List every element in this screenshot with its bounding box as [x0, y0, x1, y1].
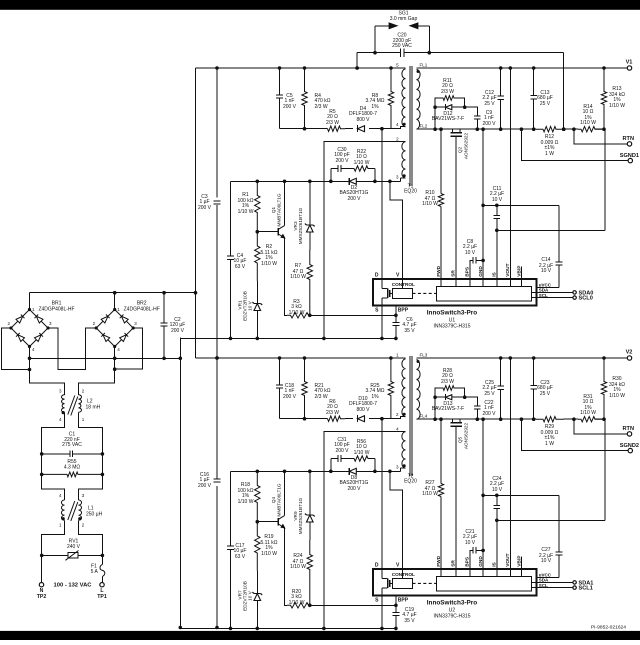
capacitor C8 2.2uF 10V BPS — [463, 239, 483, 279]
diode D10 DFLF1800-7 800V — [345, 396, 382, 422]
svg-text:10 V: 10 V — [465, 540, 476, 546]
wire bias clamp line — [231, 470, 401, 474]
diode D2 BAS20HT1G 200V — [340, 178, 369, 202]
pin label VB/P — [517, 555, 523, 567]
svg-text:200 V: 200 V — [482, 411, 496, 417]
resistor R2 5.11kohm 1% 1/10W — [255, 230, 278, 281]
spark gap SG1 3.0mm — [375, 11, 429, 29]
transformer T2 primary winding upper (pins 1,2) — [396, 353, 406, 418]
svg-text:D: D — [375, 563, 379, 569]
wire V pin to bias line — [388, 180, 403, 279]
resistor R25 3.74Mohm 1% — [365, 358, 393, 419]
IC U2 InnoSwitch3-Pro INN3379C-H315 — [373, 569, 552, 596]
resistor R56 10ohm 1/10W — [352, 439, 375, 472]
wire SCL to terminal SCL1 — [537, 586, 593, 592]
svg-text:GND: GND — [478, 266, 484, 277]
svg-text:200 V: 200 V — [482, 121, 496, 127]
capacitor C24 2.2uF 10V — [490, 476, 504, 569]
pin label VOUT — [505, 553, 511, 566]
svg-text:2/3 W: 2/3 W — [441, 89, 454, 95]
svg-text:5 A: 5 A — [91, 569, 99, 575]
capacitor C20 2200pF 250VAC — [357, 26, 564, 57]
pin label VB/P — [517, 265, 523, 277]
svg-text:1/10 W: 1/10 W — [609, 103, 625, 109]
svg-text:SR: SR — [451, 560, 457, 567]
svg-text:VOUT: VOUT — [505, 553, 511, 566]
wire section return rail — [180, 627, 397, 631]
wire to primary pin — [380, 127, 404, 131]
transformer T1 secondary winding FL1/FL2 — [417, 62, 428, 129]
wire SCL to terminal SCL0 — [537, 296, 593, 302]
label 100-132 VAC — [54, 582, 93, 588]
resistor R1 100kohm 1% 1/10W — [238, 181, 260, 231]
svg-text:1/10 W: 1/10 W — [290, 564, 306, 570]
IC name labels U2 — [427, 600, 478, 620]
pin label FWD — [436, 555, 442, 566]
resistor R10 47ohm 1/10W — [422, 190, 444, 207]
capacitor C14 2.2uF 10V uVCC — [539, 257, 553, 274]
transformer T1 EQ20 core — [404, 66, 417, 195]
svg-text:800 V: 800 V — [356, 407, 370, 413]
svg-text:2/3 W: 2/3 W — [315, 394, 328, 400]
fuse F1 5A — [91, 555, 105, 582]
wire primary return line — [30, 357, 183, 361]
svg-text:BPP: BPP — [398, 308, 409, 314]
wire BR1 pin4 down — [28, 347, 32, 372]
svg-text:Q5: Q5 — [458, 436, 463, 443]
pin label D — [375, 273, 379, 279]
pin label GND — [478, 556, 484, 567]
svg-text:1/10 W: 1/10 W — [290, 274, 306, 280]
resistor R28 20ohm 2/3W snubber — [435, 368, 465, 397]
svg-text:VB/P: VB/P — [517, 555, 523, 567]
wire BR1 pin2 loop — [2, 328, 30, 370]
capacitor C22 1nF 200V — [465, 397, 496, 419]
svg-text:10 V: 10 V — [541, 558, 552, 564]
svg-text:2/3 W: 2/3 W — [441, 379, 454, 385]
capacitor C25 2.2uF 25V — [482, 358, 504, 419]
svg-text:200 V: 200 V — [335, 448, 349, 454]
transistor Q1 MMBTA06LT1G — [257, 181, 285, 238]
wire FWD sense — [440, 419, 442, 569]
svg-text:BPS: BPS — [465, 266, 471, 277]
svg-text:MMSZ5261BT1G: MMSZ5261BT1G — [298, 207, 303, 244]
wire secondary return line FL2 — [417, 127, 537, 131]
wire primary lower winding to left vertical — [322, 141, 401, 340]
svg-text:InnoSwitch3-Pro: InnoSwitch3-Pro — [427, 310, 478, 317]
pin label BPS — [465, 266, 471, 277]
wire R13 bottom — [595, 417, 606, 421]
terminal TP2 N input — [37, 583, 47, 600]
svg-text:35 V: 35 V — [404, 618, 415, 624]
wire S pin to rail — [381, 596, 383, 629]
transformer T2 EQ20 core — [404, 356, 417, 485]
resistor R4 470kohm 2/3W — [302, 68, 331, 129]
wire uVCC supply line — [483, 495, 562, 577]
svg-text:1 W: 1 W — [545, 151, 554, 157]
common mode choke L2 18mH — [59, 388, 101, 422]
wire X-cap block to L1 pins 4,3 — [42, 474, 103, 500]
shunt resistor R12 0.009ohm 1W — [536, 127, 564, 157]
svg-text:CONTROL: CONTROL — [392, 572, 415, 577]
pin label SR — [451, 270, 457, 277]
capacitor C16 1uF 200V — [198, 472, 220, 489]
svg-text:275 VAC: 275 VAC — [62, 442, 82, 448]
wire VB/P pin stub — [521, 557, 523, 569]
svg-text:AONS62922: AONS62922 — [463, 132, 468, 159]
svg-text:INN3379C-H315: INN3379C-H315 — [434, 324, 471, 330]
svg-text:200 V: 200 V — [347, 196, 361, 202]
svg-text:1/10 W: 1/10 W — [422, 491, 438, 497]
svg-text:4.3 MΩ: 4.3 MΩ — [64, 465, 81, 471]
wire VB/P pin stub — [521, 267, 523, 279]
svg-text:10 V: 10 V — [248, 590, 253, 601]
wire L1 pin1 to RV1 line — [42, 520, 65, 555]
wire S pin to rail — [381, 306, 383, 339]
svg-text:MMBTA06LT1G: MMBTA06LT1G — [276, 483, 281, 517]
resistor R30 324kohm 1% 1/10W — [601, 358, 625, 419]
wire secondary output bus — [417, 66, 628, 70]
terminal V1 — [626, 60, 633, 71]
svg-text:200 V: 200 V — [347, 486, 361, 492]
resistor R24 47ohm 1/10W — [290, 540, 312, 607]
svg-text:FL4: FL4 — [420, 414, 428, 419]
wire section return rail — [180, 337, 397, 341]
terminal RTN — [574, 419, 634, 436]
svg-text:10 V: 10 V — [492, 487, 503, 493]
svg-text:MMSZ5261BT1G: MMSZ5261BT1G — [298, 497, 303, 534]
svg-text:D: D — [375, 273, 379, 279]
svg-text:SR: SR — [451, 270, 457, 277]
pin label BPP — [398, 598, 409, 604]
resistor R11 20ohm 2/3W snubber — [435, 78, 465, 107]
wire HV- vertical C3/C16 rail — [215, 68, 219, 629]
wire BR2 pin4 down to L2 pin 2 — [79, 347, 117, 395]
svg-text:200 V: 200 V — [335, 158, 349, 164]
svg-text:1%: 1% — [371, 394, 379, 400]
wire D pin to primary — [381, 419, 383, 569]
resistor R20 3kohm 1/10W — [287, 589, 310, 608]
svg-text:TP2: TP2 — [37, 594, 47, 600]
capacitor C2 120uF 200V — [161, 293, 186, 359]
svg-text:FWD: FWD — [436, 555, 442, 566]
wire BR1 pin3 loop — [48, 328, 96, 370]
capacitor C4 10uF 63V — [227, 181, 246, 338]
svg-text:200 V: 200 V — [171, 328, 185, 334]
resistor R21 470kohm 2/3W — [302, 358, 331, 419]
svg-text:BPS: BPS — [465, 556, 471, 567]
capacitor C11 2.2uF 10V — [490, 186, 504, 279]
capacitor C3 1uF 200V — [198, 194, 220, 211]
svg-text:100 - 132 VAC: 100 - 132 VAC — [54, 582, 93, 588]
resistor R7 47ohm 1/10W — [290, 250, 312, 317]
terminal TP1 L input — [97, 583, 107, 600]
pin label V — [396, 273, 400, 279]
SR FET Q5 AONS62922 — [450, 419, 468, 569]
svg-text:SCL0: SCL0 — [579, 296, 593, 302]
svg-text:uVCC: uVCC — [539, 282, 552, 287]
svg-text:MMBTA06LT1G: MMBTA06LT1G — [276, 193, 281, 227]
svg-text:35 V: 35 V — [404, 328, 415, 334]
svg-text:BAV21WS-7-F: BAV21WS-7-F — [432, 116, 464, 122]
wire snubber output line — [280, 417, 328, 421]
diode D8 BAS20HT1G 200V — [340, 468, 369, 492]
capacitor C13 680uF 25V — [530, 68, 553, 129]
svg-text:10 V: 10 V — [465, 250, 476, 256]
wire C20 right leg to RTN rail — [562, 53, 566, 131]
svg-text:200 V: 200 V — [283, 104, 297, 110]
svg-text:V1: V1 — [626, 60, 633, 66]
svg-text:25 V: 25 V — [540, 391, 551, 397]
svg-text:FL1: FL1 — [420, 62, 428, 67]
terminal V2 — [626, 350, 633, 361]
bridge rectifier BR1 Z4DGP408L-HF — [7, 301, 74, 353]
svg-text:63 V: 63 V — [235, 554, 246, 560]
svg-text:200 V: 200 V — [283, 394, 297, 400]
svg-text:BAV21WS-7-F: BAV21WS-7-F — [432, 406, 464, 412]
svg-text:10 V: 10 V — [248, 300, 253, 311]
svg-text:1/10 W: 1/10 W — [354, 160, 370, 166]
svg-text:2/3 W: 2/3 W — [326, 120, 339, 126]
resistor R19 5.11kohm 1% 1/10W — [255, 520, 278, 571]
transformer T1 primary winding lower (pins 2,3) — [396, 137, 406, 182]
svg-text:Q2: Q2 — [458, 146, 463, 153]
capacitor C23 680uF 25V — [530, 358, 553, 419]
zener VR3 MMSZ5261BT1G — [293, 181, 315, 250]
wire GND pin to secondary return — [481, 419, 485, 569]
zener VR7 DZVT2R10B 10V — [238, 571, 263, 630]
wire snubber output line — [280, 127, 328, 131]
wire L1 pin2 to RV1 line — [79, 520, 103, 555]
svg-text:1/10 W: 1/10 W — [289, 310, 305, 316]
resistor R22 10ohm 1/10W — [352, 149, 375, 182]
capacitor C12 2.2uF 25V — [482, 68, 504, 129]
svg-text:IS: IS — [492, 271, 498, 276]
svg-text:InnoSwitch3-Pro: InnoSwitch3-Pro — [427, 600, 478, 607]
wire VOUT sense — [509, 68, 511, 279]
capacitor C19 4.7uF 35V BPP — [393, 596, 417, 629]
wire secondary output bus — [417, 356, 628, 360]
capacitor C6 4.7uF 35V BPP — [393, 306, 417, 339]
svg-text:1%: 1% — [371, 104, 379, 110]
pin label S — [375, 308, 379, 314]
svg-text:1/10 W: 1/10 W — [238, 209, 254, 215]
capacitor C9 1nF 200V — [465, 107, 496, 129]
svg-text:AONS62922: AONS62922 — [463, 422, 468, 449]
resistor R18 100kohm 1% 1/10W — [238, 471, 260, 521]
capacitor C21 2.2uF 10V BPS — [463, 529, 483, 569]
wire BPP feedback line — [310, 604, 398, 608]
wire BR2 pin1 to HV+ line — [114, 293, 116, 310]
svg-text:1/10 W: 1/10 W — [289, 600, 305, 606]
pin label GND — [478, 266, 484, 277]
wire HV+ vertical rail to both sections — [195, 68, 197, 358]
capacitor C30 100pF 200V — [331, 147, 352, 182]
svg-text:1 W: 1 W — [545, 441, 554, 447]
svg-text:Z4DGP408L-HF: Z4DGP408L-HF — [38, 307, 74, 313]
svg-text:63 V: 63 V — [235, 264, 246, 270]
IC name labels U1 — [427, 310, 478, 330]
IC U1 InnoSwitch3-Pro INN3379C-H315 — [373, 279, 552, 306]
top black border bar — [0, 0, 640, 10]
resistor R5 20ohm 2/3W — [326, 109, 345, 132]
wire bias clamp line — [231, 180, 401, 184]
wire Q1 emitter to BPP line — [285, 238, 288, 315]
wire SDA to terminal SDA1 — [537, 580, 594, 586]
svg-text:FWD: FWD — [436, 265, 442, 276]
pin label V — [396, 563, 400, 569]
resistor R8 3.74Mohm 1% — [365, 68, 393, 129]
pin label VOUT — [505, 263, 511, 276]
svg-text:V2: V2 — [626, 350, 633, 356]
svg-text:RTN: RTN — [623, 136, 635, 142]
svg-text:1/10 W: 1/10 W — [238, 499, 254, 505]
terminal RTN — [574, 129, 634, 146]
pin label BPS — [465, 556, 471, 567]
svg-text:2/3 W: 2/3 W — [315, 104, 328, 110]
wire V pin to bias line — [388, 470, 403, 569]
varistor RV1 240V — [40, 539, 104, 561]
svg-text:250 VAC: 250 VAC — [392, 43, 412, 49]
wire GND pin to secondary return — [481, 129, 485, 279]
wire BPP feedback line — [310, 314, 398, 318]
svg-text:CONTROL: CONTROL — [392, 282, 415, 287]
svg-text:SCL1: SCL1 — [579, 586, 593, 592]
svg-text:GND: GND — [478, 556, 484, 567]
svg-text:250 µH: 250 µH — [86, 512, 103, 518]
capacitor C17 10uF 63V — [227, 471, 246, 628]
svg-text:1/10 W: 1/10 W — [422, 201, 438, 207]
bottom black border bar — [0, 631, 640, 640]
svg-text:BPP: BPP — [398, 598, 409, 604]
resistor R3 3kohm 1/10W — [287, 299, 310, 318]
wire R13 bottom — [595, 127, 606, 131]
wire input return to section rails — [179, 338, 183, 630]
wire shunt to RTN tap — [564, 417, 578, 421]
diode D4 DFLF1800-7 800V — [345, 106, 382, 132]
svg-text:1/10 W: 1/10 W — [261, 551, 277, 557]
common mode choke L1 250uH — [59, 493, 103, 527]
svg-text:EQ20: EQ20 — [404, 479, 417, 485]
wire primary lower winding to left vertical — [322, 431, 401, 630]
svg-text:10 V: 10 V — [541, 268, 552, 274]
pin label SR — [451, 560, 457, 567]
svg-text:1/10 W: 1/10 W — [354, 450, 370, 456]
transistor Q4 MMBTA06LT1G — [257, 471, 285, 528]
pin label IS — [492, 271, 498, 276]
svg-text:SGND2: SGND2 — [620, 443, 639, 449]
transformer T2 secondary winding FL3/FL4 — [417, 352, 428, 419]
wire BR1 pin1 to HV+ line — [29, 293, 31, 310]
capacitor C31 100pF 200V — [331, 437, 352, 472]
resistor R14 10ohm 1% 1/10W — [578, 104, 604, 132]
wire C20 left leg to bus — [355, 53, 359, 70]
resistor R6 20ohm 2/3W — [326, 399, 345, 422]
capacitor C5 1nF 200V — [276, 68, 297, 129]
wire L2 pin4 to X-cap block — [42, 412, 65, 454]
document number PI-9852-021624 — [591, 625, 626, 631]
wire Q1 emitter to BPP line — [285, 528, 288, 606]
svg-text:25 V: 25 V — [484, 101, 495, 107]
resistor R13 324kohm 1% 1/10W — [601, 68, 625, 129]
terminal SGND2 — [521, 419, 639, 453]
svg-text:FL3: FL3 — [420, 352, 428, 357]
resistor R27 47ohm 1/10W — [422, 480, 444, 497]
svg-text:1/10 W: 1/10 W — [261, 261, 277, 267]
svg-text:1/10 W: 1/10 W — [609, 393, 625, 399]
pin label D — [375, 563, 379, 569]
svg-text:INN3379C-H315: INN3379C-H315 — [434, 614, 471, 620]
transformer T1 primary winding upper (pins 5,4) — [396, 63, 406, 128]
pin label BPP — [398, 308, 409, 314]
svg-text:VB/P: VB/P — [517, 265, 523, 277]
svg-text:25 V: 25 V — [540, 101, 551, 107]
svg-text:25 V: 25 V — [484, 391, 495, 397]
svg-text:18 mH: 18 mH — [86, 405, 101, 411]
svg-text:TP1: TP1 — [97, 594, 107, 600]
SR FET Q2 AONS62922 — [450, 129, 468, 279]
wire VOUT sense — [509, 358, 511, 569]
svg-text:FL2: FL2 — [420, 124, 428, 129]
transformer T2 primary winding lower (pins 4,3) — [396, 427, 406, 472]
svg-text:1/10 W: 1/10 W — [580, 410, 596, 416]
bridge rectifier BR2 Z4DGP408L-HF — [93, 301, 160, 353]
wire shunt to RTN tap — [562, 127, 578, 131]
wire to primary pin — [380, 417, 404, 421]
wire FWD sense — [440, 129, 442, 279]
wire IS reference to RTN rail — [497, 129, 605, 230]
svg-text:uVCC: uVCC — [539, 572, 552, 577]
svg-text:1/10 W: 1/10 W — [580, 120, 596, 126]
resistor R55 4.3Mohm discharge — [40, 454, 104, 477]
pin label IS — [492, 561, 498, 566]
diode D13 BAV21WS-7-F — [432, 394, 467, 419]
svg-text:240 V: 240 V — [67, 544, 81, 550]
wire SDA to terminal SDA0 — [537, 290, 594, 296]
svg-text:EQ20: EQ20 — [404, 189, 417, 195]
wire IS reference to RTN rail — [497, 419, 605, 520]
svg-text:3.0 mm Gap: 3.0 mm Gap — [390, 16, 418, 22]
wire uVCC supply line — [483, 205, 562, 287]
wire secondary return line FL4 — [417, 417, 537, 421]
svg-text:Z4DGP408L-HF: Z4DGP408L-HF — [124, 307, 160, 313]
zener VR9 MMSZ5261BT1G — [293, 471, 315, 540]
wire RV1 line to terminal N — [41, 555, 43, 582]
capacitor C18 1nF 200V — [276, 358, 297, 419]
terminal SGND1 — [521, 129, 639, 163]
wire D pin to primary — [381, 129, 383, 279]
wire primary bus — [196, 66, 401, 70]
svg-text:VOUT: VOUT — [505, 263, 511, 276]
wire L2 pin1 to X-cap block — [79, 412, 103, 454]
wire BR1 AC node to L2 pin 3 — [30, 370, 65, 395]
shunt resistor R29 0.009ohm 1W — [536, 417, 564, 447]
pin label FWD — [436, 265, 442, 276]
svg-text:IS: IS — [492, 561, 498, 566]
svg-text:200 V: 200 V — [198, 205, 212, 211]
wire primary bus — [196, 356, 401, 360]
zener VR1 DZVT2R10B 10V — [238, 281, 263, 340]
svg-text:200 V: 200 V — [198, 483, 212, 489]
resistor R31 10ohm 1% 1/10W — [578, 394, 604, 422]
svg-text:800 V: 800 V — [356, 117, 370, 123]
svg-text:10 V: 10 V — [492, 197, 503, 203]
svg-text:SGND1: SGND1 — [620, 153, 639, 159]
svg-text:2/3 W: 2/3 W — [326, 410, 339, 416]
svg-text:RTN: RTN — [623, 426, 635, 432]
svg-text:PI-9852-021624: PI-9852-021624 — [591, 625, 626, 631]
capacitor C1 220nF 275VAC — [40, 432, 104, 458]
